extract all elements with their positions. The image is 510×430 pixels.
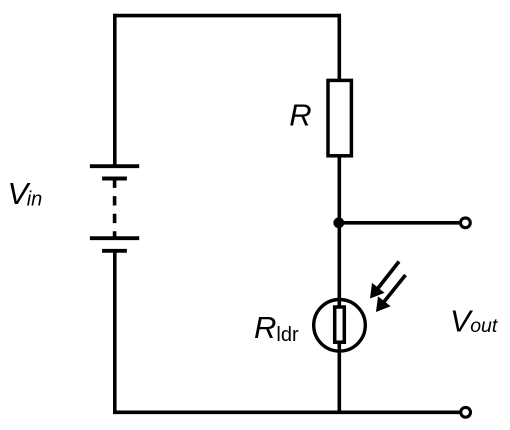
battery cell 1 long plate: [90, 164, 139, 168]
svg-text:R: R: [289, 98, 311, 133]
LDR circle body: [314, 300, 366, 352]
node junction dot: [333, 217, 344, 228]
resistor R body: [328, 80, 351, 155]
wire node to Vout top terminal: [339, 221, 459, 225]
terminal Vout top (open circle): [461, 218, 471, 228]
wire bottom horizontal: [113, 410, 460, 414]
light arrow 2 shaft: [383, 275, 406, 303]
light arrow 2 head: [376, 296, 391, 312]
wire left rail upper (top corner down to battery): [113, 14, 117, 166]
svg-text:Vin: Vin: [8, 176, 43, 211]
battery cell 2 short plate: [102, 249, 127, 253]
battery cell 2 long plate: [90, 236, 139, 240]
light arrow 1 shaft: [377, 262, 399, 290]
wire right rail top (top corner to resistor): [337, 14, 341, 79]
wire resistor to node to LDR to bottom rail: [337, 156, 341, 412]
LDR inner resistor rect: [335, 307, 345, 342]
wire left rail lower (battery down to bottom corner): [113, 251, 117, 412]
svg-text:Vout: Vout: [450, 303, 499, 338]
svg-text:Rldr: Rldr: [254, 310, 299, 346]
light arrow 1 head: [370, 283, 385, 299]
wire top horizontal from battery rail to R rail: [115, 14, 339, 18]
terminal Vout bottom (open circle): [461, 407, 471, 417]
battery cell 1 short plate: [102, 177, 127, 181]
battery dashed link (more cells): [113, 179, 117, 239]
